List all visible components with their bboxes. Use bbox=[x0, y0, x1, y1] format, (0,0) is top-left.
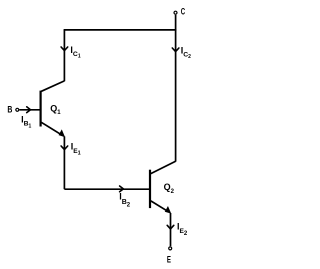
wire: top horizontal bbox=[64, 29, 177, 31]
svg-text:IB2: IB2 bbox=[119, 192, 131, 209]
svg-text:IE1: IE1 bbox=[71, 142, 81, 157]
wire: Q2 emitter vertical down to E bbox=[170, 213, 172, 246]
svg-text:IE2: IE2 bbox=[177, 221, 188, 237]
transistor Q2 base bar bbox=[149, 170, 151, 208]
terminal C circle bbox=[174, 11, 177, 14]
svg-text:Q1: Q1 bbox=[50, 104, 61, 116]
wire: Q1 emitter vertical down to bottom rail bbox=[63, 136, 65, 189]
transistor Q2 collector diagonal bbox=[151, 161, 176, 173]
terminal E circle bbox=[169, 247, 172, 250]
svg-text:IC1: IC1 bbox=[70, 45, 80, 59]
terminal B circle bbox=[16, 108, 19, 111]
svg-text:C: C bbox=[181, 6, 186, 16]
transistor Q1 collector diagonal bbox=[41, 81, 64, 91]
wire: right vertical from C down to Q2 collector bbox=[175, 15, 177, 162]
svg-text:IB1: IB1 bbox=[21, 115, 31, 130]
arrowhead I_B2 bbox=[120, 186, 124, 192]
transistor Q2 emitter diagonal bbox=[151, 201, 169, 212]
transistor Q1 base bar bbox=[39, 91, 41, 127]
transistor Q1 emitter diagonal bbox=[41, 122, 62, 135]
transistor Q2 emitter arrowhead bbox=[166, 207, 171, 213]
wire: base of Q1 bbox=[19, 109, 39, 111]
svg-text:B: B bbox=[7, 105, 12, 115]
arrowhead I_C2 (down, on right vertical) bbox=[172, 48, 179, 52]
arrowhead I_E1 (down, on emitter vertical) bbox=[61, 146, 68, 150]
arrowhead I_C1 (down, on left vertical) bbox=[61, 47, 68, 51]
wire: bottom horizontal to Q2 base bbox=[64, 188, 149, 190]
svg-text:E: E bbox=[167, 254, 171, 264]
arrowhead I_B1 bbox=[27, 107, 31, 113]
wire: left vertical from top rail to Q1 collector bbox=[63, 30, 65, 81]
svg-text:Q2: Q2 bbox=[164, 182, 175, 195]
arrowhead I_E2 (down) bbox=[167, 225, 174, 229]
svg-text:IC2: IC2 bbox=[181, 45, 191, 59]
transistor Q1 emitter arrowhead bbox=[59, 131, 64, 137]
